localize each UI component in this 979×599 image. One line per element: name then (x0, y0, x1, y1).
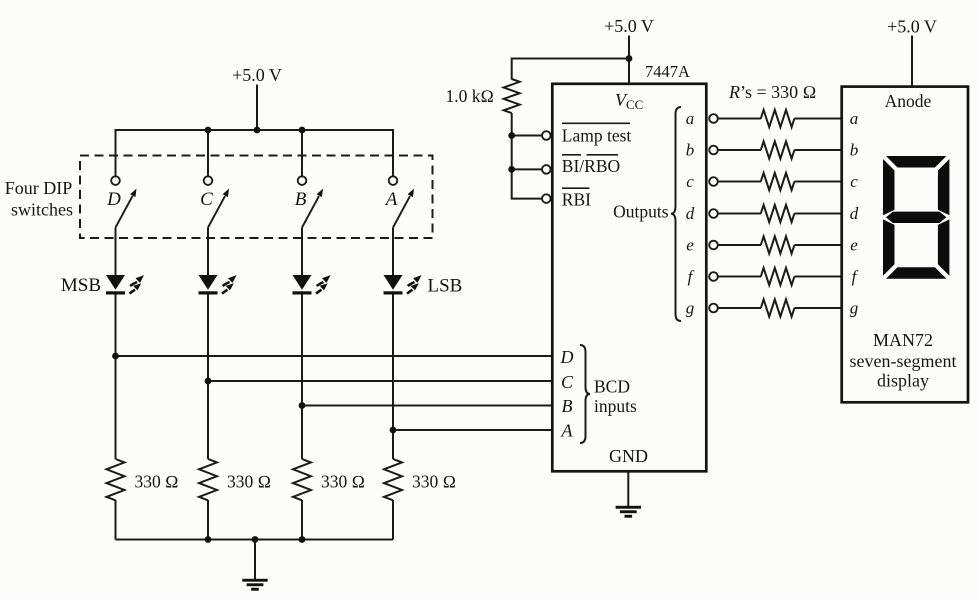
svg-text:A: A (561, 421, 574, 441)
svg-text:switches: switches (11, 200, 73, 220)
wire resistor g to display (794, 307, 841, 309)
wire bottom ground bus (116, 539, 394, 541)
svg-text:b: b (686, 141, 695, 160)
svg-text:BCD: BCD (594, 377, 630, 397)
svg-text:d: d (686, 204, 695, 223)
overline RBI (562, 187, 590, 189)
svg-text:c: c (686, 172, 694, 191)
resistor 330 ohm column B (293, 459, 311, 500)
resistor Rg 330Ω (761, 299, 795, 316)
wire BCD tap A to 7447A (393, 429, 552, 431)
resistor Rf 330Ω (761, 268, 795, 285)
overline RBO (587, 154, 619, 156)
pin bubble g (709, 304, 718, 313)
svg-text:g: g (850, 299, 859, 318)
wire BCD tap C to 7447A (208, 380, 552, 382)
svg-text:MSB: MSB (61, 275, 101, 296)
svg-text:e: e (850, 236, 858, 255)
seven-segment digit: segment a (top) (886, 156, 946, 168)
svg-text:Lamp test: Lamp test (562, 126, 632, 146)
svg-text:g: g (686, 299, 695, 318)
DIP switch enclosure (dashed box) (80, 156, 433, 239)
resistor 330 ohm column C (199, 459, 217, 500)
wire BCD tap B to 7447A (302, 405, 552, 407)
switch A (389, 176, 414, 227)
svg-text:Four DIP: Four DIP (5, 178, 73, 198)
svg-text:inputs: inputs (594, 396, 637, 416)
resistor Rd 330Ω (761, 205, 795, 222)
junction dot ground bus at stem (252, 536, 259, 543)
overline BI (562, 154, 581, 156)
wire LED D down to resistor (115, 295, 117, 460)
wire c to resistor (718, 181, 761, 183)
junction dot VCC / 1.0k feed (626, 55, 633, 62)
svg-text:D: D (560, 347, 574, 367)
switch B (298, 176, 323, 227)
junction dot at Lamp test (508, 132, 515, 139)
svg-text:d: d (850, 204, 859, 223)
svg-text:Outputs: Outputs (613, 202, 669, 222)
svg-text:VCC: VCC (615, 90, 643, 112)
svg-text:C: C (200, 189, 213, 210)
svg-text:+5.0 V: +5.0 V (887, 17, 937, 37)
wire BCD tap D to 7447A (116, 355, 552, 357)
junction dot at BI/RBO (508, 166, 515, 173)
LED column D (MSB) (106, 275, 144, 295)
LED column C (199, 275, 237, 295)
wire resistor A to ground bus (392, 500, 394, 540)
wire resistor e to display (794, 244, 841, 246)
display U2 MAN72 body (842, 87, 968, 403)
svg-text:display: display (877, 370, 929, 390)
segment b (upper right) (938, 159, 950, 215)
switch C (204, 176, 229, 227)
svg-text:f: f (852, 267, 859, 286)
wire LED B down to resistor (301, 295, 303, 460)
brace outputs (671, 107, 681, 321)
wire bus drop to switch C (207, 130, 209, 176)
svg-text:330 Ω: 330 Ω (412, 472, 456, 492)
pin bubble BI/RBO (542, 165, 551, 174)
pin bubble RBI (542, 194, 551, 203)
resistor Rc 330Ω (761, 173, 795, 190)
wire switch C to LED (207, 228, 209, 276)
junction dot tap D (112, 353, 119, 360)
wire top bus with end drops to switches D and A (116, 130, 394, 176)
svg-text:C: C (561, 372, 574, 392)
wire switch A to LED (392, 228, 394, 276)
wire resistor f to display (794, 276, 841, 278)
resistor Re 330Ω (761, 236, 795, 253)
svg-text:a: a (850, 109, 859, 128)
svg-text:330 Ω: 330 Ω (321, 472, 365, 492)
svg-text:RBI: RBI (562, 189, 591, 209)
segment f (upper left) (883, 159, 895, 215)
svg-text:+5.0 V: +5.0 V (232, 65, 282, 85)
svg-text:B: B (295, 189, 307, 210)
pin bubble f (709, 272, 718, 281)
ground (switch network) (242, 579, 267, 591)
resistor 330 ohm column D (107, 459, 125, 500)
svg-text:R’s = 330 Ω: R’s = 330 Ω (728, 82, 816, 102)
wire resistor D to ground bus (115, 500, 117, 540)
wire b to resistor (718, 149, 761, 151)
svg-text:Anode: Anode (885, 91, 932, 111)
wire resistor b to display (794, 149, 841, 151)
wire LED A down to resistor (392, 295, 394, 460)
wire resistor d to display (794, 213, 841, 215)
wire LED C down to resistor (207, 295, 209, 460)
junction dot tap C (205, 378, 212, 385)
svg-text:seven-segment: seven-segment (850, 351, 957, 371)
wire +5V stem to VCC pin (628, 36, 630, 85)
wire anode stem (911, 36, 913, 87)
svg-text:e: e (686, 236, 694, 255)
wire f to resistor (718, 276, 761, 278)
junction dot tap A (390, 427, 397, 434)
wire to BI/RBO pin (512, 168, 542, 170)
wire resistor B to ground bus (301, 500, 303, 540)
wire e to resistor (718, 244, 761, 246)
segment e (lower left) (883, 219, 895, 275)
svg-text:+5.0 V: +5.0 V (604, 16, 654, 36)
segment c (lower right) (938, 219, 950, 275)
wire 1.0k down to RBI row (512, 113, 542, 199)
svg-text:LSB: LSB (428, 276, 463, 297)
wire d to resistor (718, 213, 761, 215)
pin bubble c (709, 177, 718, 186)
wire switch B to LED (301, 228, 303, 276)
wire resistor a to display (794, 118, 841, 120)
junction dot ground bus at B (299, 536, 306, 543)
svg-text:B: B (562, 396, 573, 416)
svg-text:BI/RBO: BI/RBO (562, 156, 620, 176)
junction dot tap B (299, 402, 306, 409)
svg-text:GND: GND (609, 446, 648, 466)
svg-text:MAN72: MAN72 (873, 330, 933, 350)
junction dot bus at +5V stem (254, 127, 261, 134)
wire GND stem (627, 473, 629, 507)
svg-text:c: c (850, 172, 858, 191)
wire +5V to 1.0 kΩ resistor (512, 59, 629, 80)
overline Lamp test (562, 122, 630, 124)
junction dot bus at C column (205, 127, 212, 134)
wire resistor C to ground bus (207, 500, 209, 540)
wire ground stem (switch network) (254, 540, 256, 580)
pin bubble d (709, 209, 718, 218)
segment g (middle) (886, 212, 946, 223)
pin bubble Lamp test (542, 131, 551, 140)
pin bubble b (709, 146, 718, 155)
junction dot bus at B column (299, 127, 306, 134)
IC U1 7447A body (552, 84, 706, 472)
svg-text:330 Ω: 330 Ω (227, 472, 271, 492)
resistor Ra 330Ω (761, 110, 795, 127)
resistor R 1.0 kΩ (504, 79, 520, 113)
wire +5V stem to top bus (256, 85, 258, 131)
svg-text:1.0 kΩ: 1.0 kΩ (446, 86, 494, 106)
wire to Lamp test pin (512, 135, 542, 137)
svg-text:a: a (686, 109, 695, 128)
svg-text:b: b (850, 141, 859, 160)
wire g to resistor (718, 307, 761, 309)
LED column B (293, 275, 331, 295)
wire a to resistor (718, 118, 761, 120)
segment d (bottom) (886, 267, 946, 279)
pin bubble a (709, 114, 718, 123)
wire switch D to LED (115, 228, 117, 276)
pin bubble e (709, 241, 718, 250)
svg-text:A: A (384, 189, 398, 210)
resistor 330 ohm column A (384, 459, 402, 500)
junction dot ground bus at C (205, 536, 212, 543)
switch D (111, 176, 136, 227)
wire bus drop to switch B (301, 130, 303, 176)
wire resistor c to display (794, 181, 841, 183)
LED column A (LSB) (384, 275, 422, 295)
svg-text:D: D (106, 189, 121, 210)
svg-text:f: f (688, 267, 695, 286)
svg-text:7447A: 7447A (645, 62, 690, 81)
svg-text:330 Ω: 330 Ω (135, 472, 179, 492)
ground (7447A) (616, 506, 641, 518)
resistor Rb 330Ω (761, 141, 795, 158)
brace BCD inputs (580, 345, 590, 443)
